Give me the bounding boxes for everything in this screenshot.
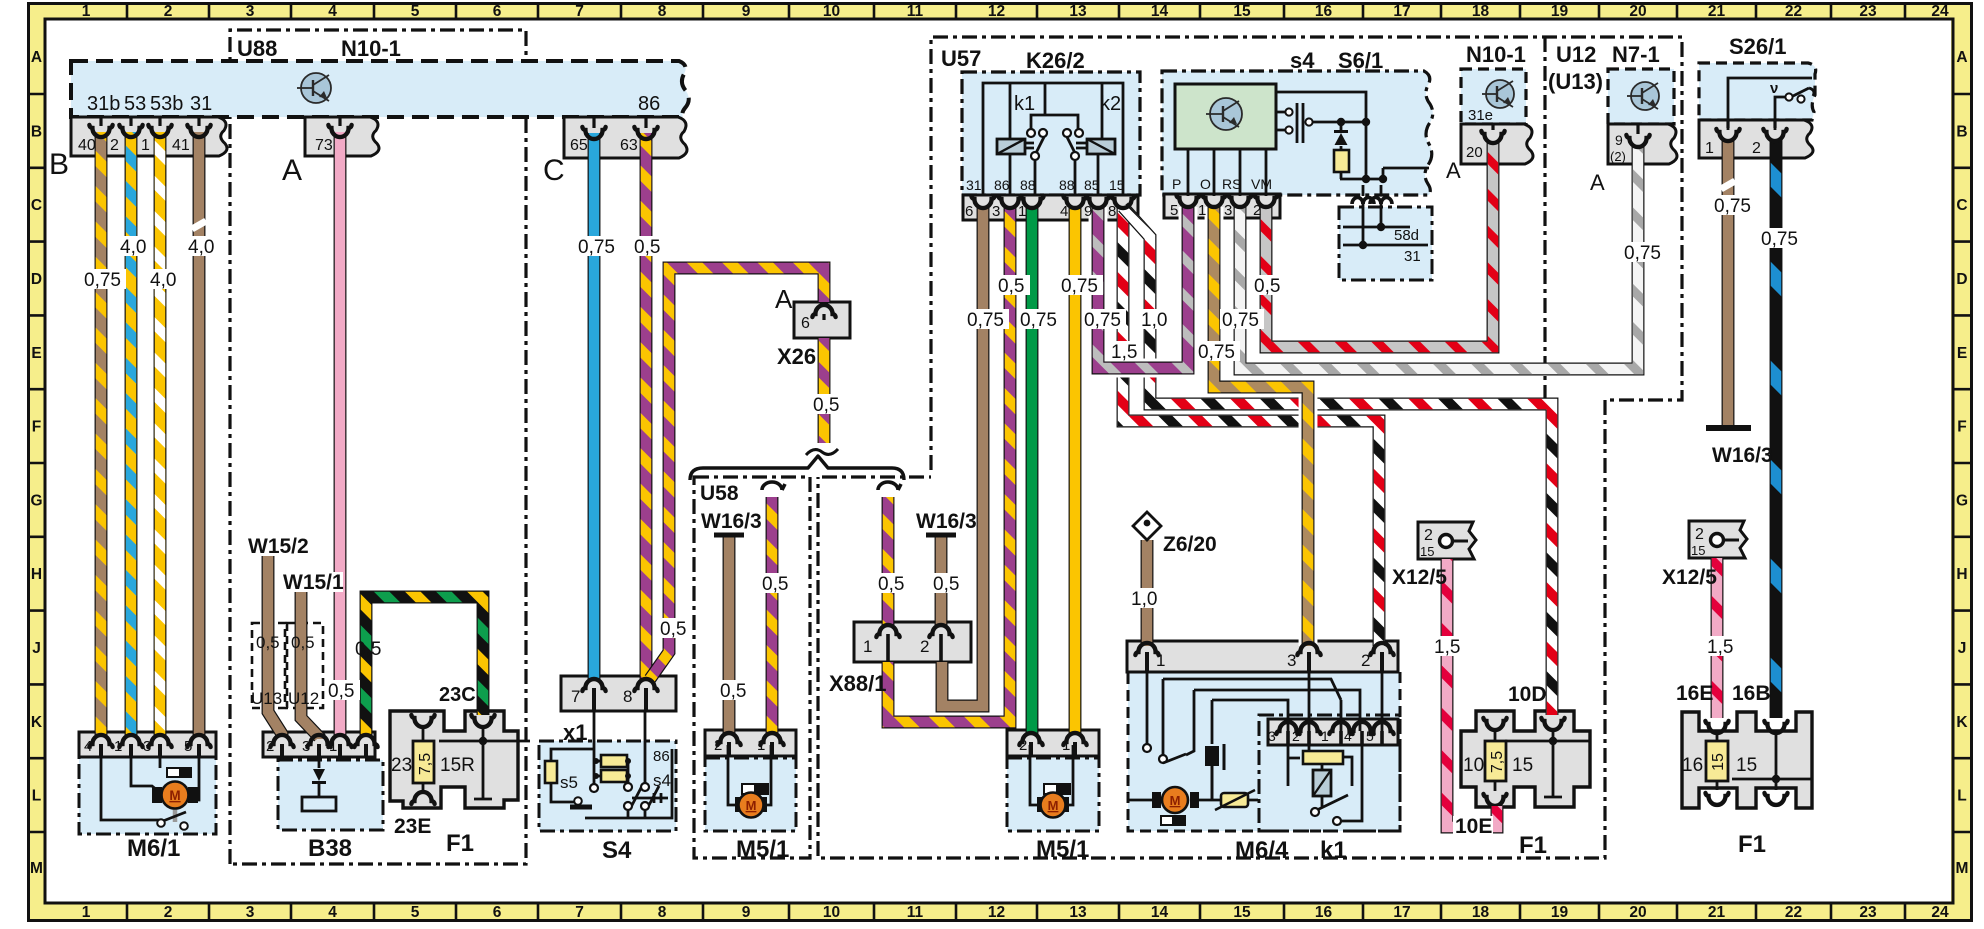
svg-text:E: E — [31, 345, 41, 362]
svg-text:0,5: 0,5 — [291, 633, 315, 652]
svg-text:3: 3 — [1268, 728, 1276, 744]
svg-text:A: A — [1590, 170, 1605, 195]
svg-text:U12: U12 — [1556, 42, 1596, 67]
svg-text:U13: U13 — [251, 689, 282, 708]
svg-text:1,5: 1,5 — [1707, 637, 1733, 658]
svg-text:1: 1 — [863, 637, 872, 656]
svg-text:RS: RS — [1222, 176, 1241, 192]
svg-text:5: 5 — [411, 3, 420, 20]
svg-text:10: 10 — [1463, 755, 1484, 776]
svg-text:7: 7 — [575, 3, 584, 20]
svg-text:24: 24 — [1931, 904, 1949, 921]
svg-text:16B: 16B — [1732, 682, 1771, 705]
svg-text:21: 21 — [1708, 904, 1726, 921]
svg-text:18: 18 — [1472, 904, 1490, 921]
svg-text:4: 4 — [1344, 728, 1352, 744]
svg-text:88: 88 — [1059, 177, 1075, 193]
svg-text:10: 10 — [823, 904, 840, 921]
svg-text:S4: S4 — [602, 837, 632, 864]
svg-text:M6/4: M6/4 — [1235, 837, 1289, 864]
svg-text:0,5: 0,5 — [762, 574, 788, 595]
svg-text:16: 16 — [1682, 755, 1703, 776]
svg-text:20: 20 — [1466, 144, 1483, 161]
svg-text:88: 88 — [1020, 177, 1036, 193]
svg-text:63: 63 — [620, 137, 638, 154]
svg-text:W15/1: W15/1 — [283, 571, 344, 594]
svg-text:C: C — [1956, 197, 1967, 214]
svg-text:2: 2 — [1361, 651, 1370, 670]
svg-text:0,75: 0,75 — [1761, 229, 1798, 250]
svg-text:2: 2 — [1424, 527, 1433, 544]
svg-text:O: O — [1200, 176, 1211, 192]
svg-text:10D: 10D — [1508, 683, 1547, 706]
svg-text:B38: B38 — [308, 835, 352, 862]
svg-text:0,5: 0,5 — [813, 395, 839, 416]
svg-text:3: 3 — [143, 738, 151, 755]
svg-text:10E: 10E — [1455, 815, 1492, 838]
svg-text:0,5: 0,5 — [634, 237, 660, 258]
svg-text:M: M — [746, 798, 757, 813]
svg-text:X26: X26 — [777, 344, 816, 369]
svg-text:M: M — [169, 788, 180, 803]
svg-text:5: 5 — [1366, 728, 1374, 744]
svg-text:16: 16 — [1315, 3, 1333, 20]
svg-text:S26/1: S26/1 — [1729, 34, 1787, 59]
svg-text:F: F — [1957, 419, 1966, 436]
svg-text:21: 21 — [1708, 3, 1726, 20]
svg-text:6: 6 — [801, 315, 810, 332]
svg-text:23E: 23E — [394, 815, 431, 838]
svg-text:E: E — [1957, 345, 1967, 362]
svg-text:16E: 16E — [1676, 682, 1713, 705]
svg-text:L: L — [1957, 788, 1966, 805]
svg-text:M: M — [1956, 860, 1969, 877]
svg-text:8: 8 — [658, 3, 667, 20]
svg-text:13: 13 — [1069, 3, 1087, 20]
svg-text:2: 2 — [266, 738, 274, 755]
svg-text:H: H — [31, 566, 42, 583]
svg-text:D: D — [1956, 271, 1967, 288]
svg-text:1,5: 1,5 — [1111, 342, 1137, 363]
svg-text:3: 3 — [1224, 202, 1232, 219]
svg-text:2: 2 — [164, 3, 173, 20]
svg-text:19: 19 — [1551, 904, 1569, 921]
svg-text:S6/1: S6/1 — [1338, 48, 1383, 73]
svg-text:4,0: 4,0 — [188, 237, 214, 258]
svg-text:k2: k2 — [1100, 93, 1121, 115]
svg-text:31: 31 — [966, 177, 982, 193]
svg-text:3: 3 — [246, 904, 255, 921]
svg-text:2: 2 — [164, 904, 173, 921]
svg-text:0,5: 0,5 — [998, 276, 1024, 297]
svg-text:7: 7 — [571, 687, 580, 706]
svg-text:0,75: 0,75 — [1020, 310, 1057, 331]
svg-text:15: 15 — [1736, 755, 1757, 776]
svg-text:k1: k1 — [1014, 93, 1035, 115]
svg-text:8: 8 — [658, 904, 667, 921]
svg-text:0,75: 0,75 — [1714, 196, 1751, 217]
svg-text:22: 22 — [1785, 3, 1802, 20]
svg-text:s4: s4 — [653, 771, 671, 790]
svg-text:M6/1: M6/1 — [127, 835, 180, 862]
svg-text:11: 11 — [907, 904, 924, 921]
svg-text:5: 5 — [411, 904, 420, 921]
svg-text:14: 14 — [1151, 904, 1169, 921]
svg-text:0,75: 0,75 — [967, 310, 1004, 331]
svg-text:W16/3: W16/3 — [1712, 444, 1773, 467]
svg-text:15: 15 — [1710, 753, 1727, 771]
svg-text:G: G — [1956, 492, 1968, 509]
svg-text:65: 65 — [570, 137, 588, 154]
svg-text:17: 17 — [1393, 3, 1410, 20]
svg-text:0,5: 0,5 — [660, 619, 686, 640]
svg-text:P: P — [1172, 176, 1181, 192]
svg-text:U57: U57 — [941, 46, 981, 71]
svg-text:4,0: 4,0 — [150, 270, 176, 291]
svg-text:9: 9 — [1615, 132, 1623, 148]
svg-text:41: 41 — [172, 137, 190, 154]
svg-text:20: 20 — [1629, 904, 1646, 921]
svg-text:40: 40 — [78, 137, 96, 154]
svg-text:23: 23 — [391, 755, 412, 776]
svg-text:A: A — [1446, 158, 1461, 183]
svg-text:4: 4 — [1060, 203, 1068, 220]
svg-text:W16/3: W16/3 — [916, 510, 977, 533]
svg-text:K: K — [1956, 714, 1968, 731]
svg-text:F: F — [32, 419, 41, 436]
svg-text:1: 1 — [1705, 140, 1714, 157]
svg-text:ν: ν — [1770, 80, 1778, 97]
svg-text:9: 9 — [742, 3, 751, 20]
svg-text:5: 5 — [1170, 202, 1178, 219]
svg-text:4: 4 — [328, 3, 337, 20]
svg-text:M: M — [1048, 798, 1059, 813]
svg-text:58d: 58d — [1394, 227, 1419, 244]
svg-text:15: 15 — [1420, 544, 1434, 559]
svg-text:C: C — [543, 154, 565, 187]
svg-text:15: 15 — [1109, 177, 1125, 193]
svg-text:53: 53 — [124, 93, 146, 115]
svg-text:1: 1 — [114, 738, 122, 755]
svg-text:U58: U58 — [700, 482, 739, 505]
svg-text:13: 13 — [1069, 904, 1087, 921]
svg-text:VM: VM — [1251, 176, 1272, 192]
svg-text:1: 1 — [1018, 203, 1026, 220]
svg-text:73: 73 — [315, 137, 333, 154]
svg-text:10: 10 — [823, 3, 840, 20]
svg-text:H: H — [1956, 566, 1967, 583]
svg-text:A: A — [1956, 49, 1967, 66]
svg-text:23: 23 — [1859, 904, 1877, 921]
svg-text:(U13): (U13) — [1548, 69, 1603, 94]
svg-text:2: 2 — [1752, 140, 1761, 157]
svg-text:0,75: 0,75 — [578, 237, 615, 258]
svg-text:M5/1: M5/1 — [736, 836, 789, 863]
svg-text:M5/1: M5/1 — [1036, 836, 1089, 863]
svg-text:6: 6 — [965, 203, 973, 220]
svg-text:2: 2 — [1253, 202, 1261, 219]
svg-text:0,5: 0,5 — [933, 574, 959, 595]
svg-text:0,5: 0,5 — [256, 633, 280, 652]
svg-text:4,0: 4,0 — [120, 237, 146, 258]
svg-text:K26/2: K26/2 — [1026, 48, 1085, 73]
svg-text:1: 1 — [1156, 651, 1165, 670]
svg-text:9: 9 — [1084, 203, 1092, 220]
svg-text:6: 6 — [493, 904, 502, 921]
svg-text:7,5: 7,5 — [417, 753, 434, 775]
svg-text:23C: 23C — [439, 684, 476, 706]
svg-text:15: 15 — [1691, 543, 1705, 558]
svg-text:1,0: 1,0 — [1141, 310, 1167, 331]
svg-text:15R: 15R — [440, 755, 475, 776]
svg-text:9: 9 — [742, 904, 751, 921]
svg-text:X88/1: X88/1 — [829, 671, 887, 696]
svg-text:1: 1 — [1062, 737, 1070, 754]
svg-text:24: 24 — [1931, 3, 1949, 20]
svg-text:X12/5: X12/5 — [1662, 566, 1717, 589]
svg-text:0,5: 0,5 — [1254, 276, 1280, 297]
svg-text:86: 86 — [638, 93, 660, 115]
svg-text:15: 15 — [1233, 904, 1251, 921]
svg-text:53b: 53b — [150, 93, 183, 115]
svg-text:14: 14 — [1151, 3, 1169, 20]
svg-text:1,0: 1,0 — [1131, 589, 1157, 610]
svg-text:M: M — [30, 860, 43, 877]
svg-text:J: J — [1958, 640, 1967, 657]
svg-text:3: 3 — [246, 3, 255, 20]
svg-text:0,5: 0,5 — [878, 574, 904, 595]
svg-text:X12/5: X12/5 — [1392, 566, 1447, 589]
svg-text:4: 4 — [328, 904, 337, 921]
svg-text:0,5: 0,5 — [355, 639, 381, 660]
svg-text:7,5: 7,5 — [1489, 751, 1506, 773]
svg-text:11: 11 — [907, 3, 924, 20]
svg-text:B: B — [49, 148, 69, 181]
svg-text:19: 19 — [1551, 3, 1569, 20]
svg-text:3: 3 — [302, 738, 310, 755]
svg-text:0,75: 0,75 — [84, 270, 121, 291]
svg-text:5: 5 — [184, 738, 192, 755]
svg-text:2: 2 — [714, 737, 722, 754]
svg-text:W15/2: W15/2 — [248, 535, 309, 558]
svg-text:2: 2 — [1019, 737, 1027, 754]
svg-text:31e: 31e — [1468, 107, 1493, 124]
svg-text:4: 4 — [84, 738, 92, 755]
svg-text:1: 1 — [757, 737, 765, 754]
svg-text:U12: U12 — [288, 689, 319, 708]
svg-text:3: 3 — [1287, 651, 1296, 670]
svg-text:6: 6 — [493, 3, 502, 20]
svg-text:1: 1 — [1321, 728, 1329, 744]
svg-text:N7-1: N7-1 — [1612, 42, 1660, 67]
svg-text:31: 31 — [1404, 248, 1421, 265]
svg-text:U88: U88 — [237, 36, 277, 61]
svg-text:2: 2 — [1695, 526, 1704, 543]
svg-text:16: 16 — [1315, 904, 1333, 921]
svg-text:k1: k1 — [1320, 837, 1347, 864]
svg-text:x1: x1 — [563, 720, 587, 745]
svg-text:1: 1 — [141, 137, 150, 154]
svg-text:L: L — [32, 788, 41, 805]
svg-text:s4: s4 — [1290, 48, 1315, 73]
svg-text:1: 1 — [82, 3, 91, 20]
svg-text:1: 1 — [1198, 202, 1206, 219]
svg-text:1: 1 — [82, 904, 91, 921]
svg-text:0,5: 0,5 — [328, 681, 354, 702]
svg-text:0,5: 0,5 — [720, 681, 746, 702]
svg-text:0,75: 0,75 — [1084, 310, 1121, 331]
svg-text:F1: F1 — [446, 830, 474, 857]
svg-text:15: 15 — [1233, 3, 1251, 20]
svg-text:86: 86 — [994, 177, 1010, 193]
svg-text:31: 31 — [190, 93, 212, 115]
svg-text:F1: F1 — [1519, 832, 1547, 859]
svg-text:K: K — [31, 714, 43, 731]
svg-text:A: A — [775, 284, 793, 314]
svg-text:J: J — [32, 640, 41, 657]
svg-text:A: A — [282, 154, 302, 187]
svg-text:1: 1 — [329, 738, 337, 755]
svg-text:7: 7 — [575, 904, 584, 921]
svg-text:0,75: 0,75 — [1222, 310, 1259, 331]
svg-text:3: 3 — [992, 203, 1000, 220]
svg-text:12: 12 — [988, 3, 1005, 20]
svg-text:s5: s5 — [560, 773, 578, 792]
svg-text:C: C — [31, 197, 42, 214]
svg-text:2: 2 — [110, 137, 119, 154]
svg-text:G: G — [30, 492, 42, 509]
svg-text:B: B — [1956, 123, 1967, 140]
svg-text:F1: F1 — [1738, 831, 1766, 858]
svg-text:0,75: 0,75 — [1198, 342, 1235, 363]
svg-text:22: 22 — [1785, 904, 1802, 921]
svg-text:18: 18 — [1472, 3, 1490, 20]
svg-text:8: 8 — [623, 687, 632, 706]
svg-text:23: 23 — [1859, 3, 1877, 20]
svg-text:85: 85 — [1084, 177, 1100, 193]
svg-text:N10-1: N10-1 — [1466, 42, 1526, 67]
svg-text:D: D — [31, 271, 42, 288]
svg-text:2: 2 — [920, 637, 929, 656]
svg-text:(2): (2) — [1610, 149, 1626, 164]
svg-text:31b: 31b — [87, 93, 120, 115]
svg-text:2: 2 — [1292, 728, 1300, 744]
svg-text:W16/3: W16/3 — [701, 510, 762, 533]
svg-text:15: 15 — [1512, 755, 1533, 776]
svg-text:N10-1: N10-1 — [341, 36, 401, 61]
svg-text:1,5: 1,5 — [1434, 637, 1460, 658]
svg-text:Z6/20: Z6/20 — [1163, 533, 1217, 556]
svg-text:86: 86 — [653, 748, 670, 765]
svg-text:0,75: 0,75 — [1061, 276, 1098, 297]
svg-text:0,75: 0,75 — [1624, 243, 1661, 264]
svg-text:A: A — [31, 49, 42, 66]
svg-text:8: 8 — [1108, 203, 1116, 220]
svg-text:20: 20 — [1629, 3, 1646, 20]
svg-text:M: M — [1170, 793, 1181, 808]
svg-text:B: B — [31, 123, 42, 140]
svg-text:17: 17 — [1393, 904, 1410, 921]
svg-text:12: 12 — [988, 904, 1005, 921]
